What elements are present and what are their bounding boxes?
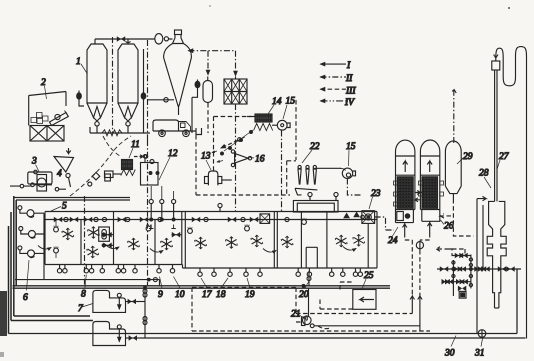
wire collect line — [15, 278, 160, 286]
scan corner mark — [0, 352, 4, 357]
svg-text:5: 5 — [62, 202, 67, 212]
mixer trough assembly — [45, 212, 377, 269]
sight glass 31 — [478, 330, 486, 338]
valve rack row 1 — [452, 253, 472, 259]
svg-text:17: 17 — [202, 290, 213, 300]
wire twin transfer lines — [14, 198, 131, 201]
svg-text:4: 4 — [57, 169, 62, 179]
svg-text:20: 20 — [299, 290, 309, 300]
inlet stubs with valves — [102, 232, 182, 248]
svg-text:26: 26 — [444, 222, 454, 232]
tank 8 vent — [117, 325, 121, 342]
level sensor silo 1 — [77, 91, 84, 107]
drain pocket — [196, 128, 202, 135]
label 11 — [129, 140, 140, 158]
label 21 — [291, 310, 305, 320]
inner hopper of weigh box — [301, 212, 327, 268]
wire left manifold risers — [9, 196, 93, 334]
label 25 — [362, 271, 374, 289]
wire dashed to valve rack — [436, 247, 452, 256]
feed funnel 4 — [54, 148, 74, 187]
wire dashed chute curve — [103, 136, 120, 156]
label 23 — [369, 189, 381, 209]
label 30 — [444, 336, 456, 359]
agitator unit 23 — [362, 211, 375, 224]
legend line III — [321, 87, 357, 97]
label 20 — [299, 281, 309, 300]
wire dust line to filters — [189, 50, 236, 52]
loop pipe stack — [492, 47, 527, 339]
temperature sensor on cyclone — [192, 80, 200, 98]
heater coil 11 — [105, 160, 136, 178]
svg-text:28: 28 — [479, 169, 489, 179]
standpipe fittings above feeder — [218, 192, 338, 211]
ink speck — [508, 7, 510, 9]
label 6 — [23, 260, 29, 303]
wire pump outlets — [34, 213, 44, 279]
burner box 25 — [353, 290, 376, 310]
pump unit 3 — [20, 170, 59, 191]
wire dash-dot riser between silos — [112, 37, 114, 133]
label 14 — [266, 97, 282, 117]
label 2 — [41, 78, 47, 99]
trough top fittings — [54, 212, 365, 223]
svg-text:IV: IV — [344, 98, 355, 108]
svg-text:15: 15 — [346, 142, 356, 152]
legend line I — [321, 61, 352, 71]
label 13 — [201, 152, 211, 171]
wire slurry twin main — [13, 286, 391, 288]
rotation arrows — [38, 245, 356, 252]
compressor 13 — [205, 171, 232, 185]
cyclone battery 22 — [295, 165, 317, 195]
label 5 — [51, 202, 67, 212]
label 17 — [201, 278, 213, 300]
label 22 — [302, 142, 320, 163]
svg-text:30: 30 — [444, 349, 455, 359]
adsorber column 26 — [418, 140, 443, 221]
wire top feed line — [95, 39, 150, 44]
valve tank 8 — [126, 335, 141, 341]
wire dash-dot riser right of silos — [147, 40, 149, 140]
truck — [153, 120, 196, 137]
bypass valve box — [458, 286, 466, 299]
wire fuel header — [143, 286, 147, 338]
legend line II — [321, 74, 354, 84]
label 28 — [479, 169, 491, 189]
wire dashed enclosure 22 — [287, 100, 296, 196]
svg-text:18: 18 — [216, 290, 226, 300]
wire dashed branch with sight glass — [221, 136, 247, 148]
legend line IV — [321, 98, 356, 108]
svg-text:16: 16 — [255, 155, 265, 165]
dosing cell — [99, 227, 110, 241]
silo 1 — [87, 44, 107, 133]
svg-text:24: 24 — [388, 236, 398, 246]
fractionating column 30 — [487, 201, 506, 308]
wire pump 15b drain — [347, 179, 362, 196]
label 8 — [81, 275, 86, 300]
svg-text:27: 27 — [499, 152, 510, 162]
wire cyclone underflow — [191, 97, 193, 133]
label 31 — [474, 339, 485, 359]
standpipes on trough — [149, 186, 176, 229]
cyclone dryer — [164, 44, 192, 116]
heated screw 14 — [247, 114, 273, 131]
svg-text:11: 11 — [131, 140, 140, 150]
wire feed arrow to column — [477, 196, 486, 200]
fuel tank 8 — [93, 322, 126, 346]
tank 7 vent — [117, 293, 121, 309]
wire link 23 to adsorbers — [375, 217, 394, 230]
junction 20 — [302, 271, 311, 287]
label 3 — [31, 157, 39, 172]
svg-text:2: 2 — [41, 78, 46, 88]
steam bombs — [54, 218, 307, 258]
lever linkage dots — [212, 130, 253, 162]
label 29 — [457, 152, 473, 164]
valve on top line — [117, 36, 125, 42]
wire dashed recirc rect — [192, 282, 430, 331]
label 19 — [245, 278, 255, 300]
scan edge mark — [0, 291, 7, 336]
label 9 — [158, 277, 163, 301]
label 15b — [346, 142, 356, 166]
mixer agitators — [62, 227, 365, 259]
guard capsule vessel — [203, 77, 213, 103]
wire drop to guard vessel — [207, 51, 209, 75]
label 1 — [76, 57, 88, 74]
wire riser from pump 15 — [281, 131, 283, 212]
wash column 29 — [445, 141, 461, 199]
svg-text:19: 19 — [245, 290, 255, 300]
svg-text:13: 13 — [201, 152, 211, 162]
wire dashdot drop from filter — [235, 104, 237, 211]
screw conveyor under silos — [90, 127, 150, 136]
vibrating screen 2 — [29, 92, 69, 142]
label 15 — [283, 97, 295, 120]
label 10 — [174, 277, 185, 301]
dosing pumps 6 — [18, 206, 36, 258]
wire dashed drop from capsule — [207, 103, 209, 133]
wire fuel main to furnace — [140, 337, 526, 339]
wire collector lines left — [10, 185, 66, 189]
trough bottom fittings — [57, 265, 362, 277]
svg-text:1: 1 — [76, 57, 81, 67]
wire long dashed feed curve — [70, 136, 131, 196]
label 24 — [388, 227, 398, 246]
label 7 — [78, 304, 93, 315]
wire arrows up legs — [410, 296, 422, 331]
level sensor silo 2 — [141, 49, 146, 133]
adsorber column 24 — [394, 140, 415, 223]
mixer tank 12 — [141, 155, 159, 185]
circulation pump 25b — [416, 241, 423, 251]
svg-text:8: 8 — [81, 290, 86, 300]
elevator pump 15 — [272, 120, 290, 130]
bag filter grid box — [224, 77, 247, 105]
wire rack verticals — [452, 255, 473, 297]
wire return main — [9, 269, 518, 334]
label 27 — [497, 152, 510, 170]
label 16 — [248, 155, 265, 165]
fuel tank 7 — [93, 290, 126, 312]
column legs — [403, 221, 432, 233]
wire dashed box around doser — [196, 117, 290, 196]
blower — [150, 34, 173, 44]
silo 2 — [118, 44, 138, 133]
wire vent with circle — [134, 155, 148, 159]
svg-text:29: 29 — [463, 152, 473, 162]
svg-text:10: 10 — [175, 290, 185, 300]
label 12 — [159, 149, 178, 180]
wire inlet to box 26 — [440, 214, 451, 218]
wire riser from 23 — [367, 223, 369, 268]
label 26 — [441, 220, 454, 232]
feeder head on cyclone — [173, 30, 184, 44]
svg-text:6: 6 — [23, 293, 28, 303]
wire dashdot riser A — [84, 196, 86, 286]
valve tank 7 — [126, 299, 146, 305]
transfer pump 15b — [316, 168, 355, 178]
wire downcomer pipes — [477, 199, 483, 334]
wire dashed drop legs — [405, 233, 430, 296]
wire drop to bag filter — [235, 51, 237, 76]
valve rack row 2 — [437, 266, 521, 272]
gear pump 21 — [302, 288, 420, 327]
sifter diamond — [88, 173, 111, 187]
valve rack row 3 — [442, 279, 472, 285]
label 18 — [216, 278, 228, 300]
svg-text:II: II — [345, 74, 353, 84]
wire cyclone drain — [148, 98, 175, 102]
wire dashed rack feed — [452, 249, 465, 255]
svg-text:III: III — [345, 87, 356, 97]
weigher 16 — [231, 150, 251, 167]
wire cross connectors — [415, 191, 421, 202]
svg-text:31: 31 — [474, 349, 485, 359]
svg-text:9: 9 — [158, 290, 163, 300]
wire riser to col 29 vent — [451, 89, 456, 143]
wire drain col 29 — [453, 199, 473, 236]
wire dashdot riser B — [147, 140, 149, 286]
feeder box over trough — [293, 201, 338, 213]
metering box with X — [260, 214, 270, 224]
